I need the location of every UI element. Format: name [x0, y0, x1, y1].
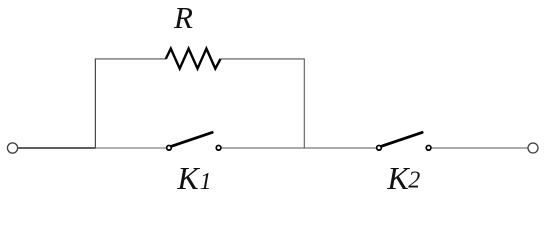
switch K1: [167, 132, 221, 150]
wire: [94, 58, 96, 148]
wire: [303, 58, 305, 148]
svg-text:2: 2: [408, 168, 420, 194]
svg-text:K: K: [386, 160, 410, 196]
svg-text:K: K: [176, 160, 200, 196]
wire: [432, 147, 528, 149]
terminal left: [7, 143, 17, 153]
wire: [222, 147, 376, 149]
wire: [18, 147, 95, 149]
resistor R: [166, 49, 221, 69]
svg-text:1: 1: [200, 169, 212, 195]
wire: [96, 147, 166, 149]
wire: [95, 58, 166, 60]
wire: [221, 58, 305, 60]
switch K2: [377, 132, 431, 150]
terminal right: [528, 143, 538, 153]
svg-text:R: R: [173, 0, 193, 35]
